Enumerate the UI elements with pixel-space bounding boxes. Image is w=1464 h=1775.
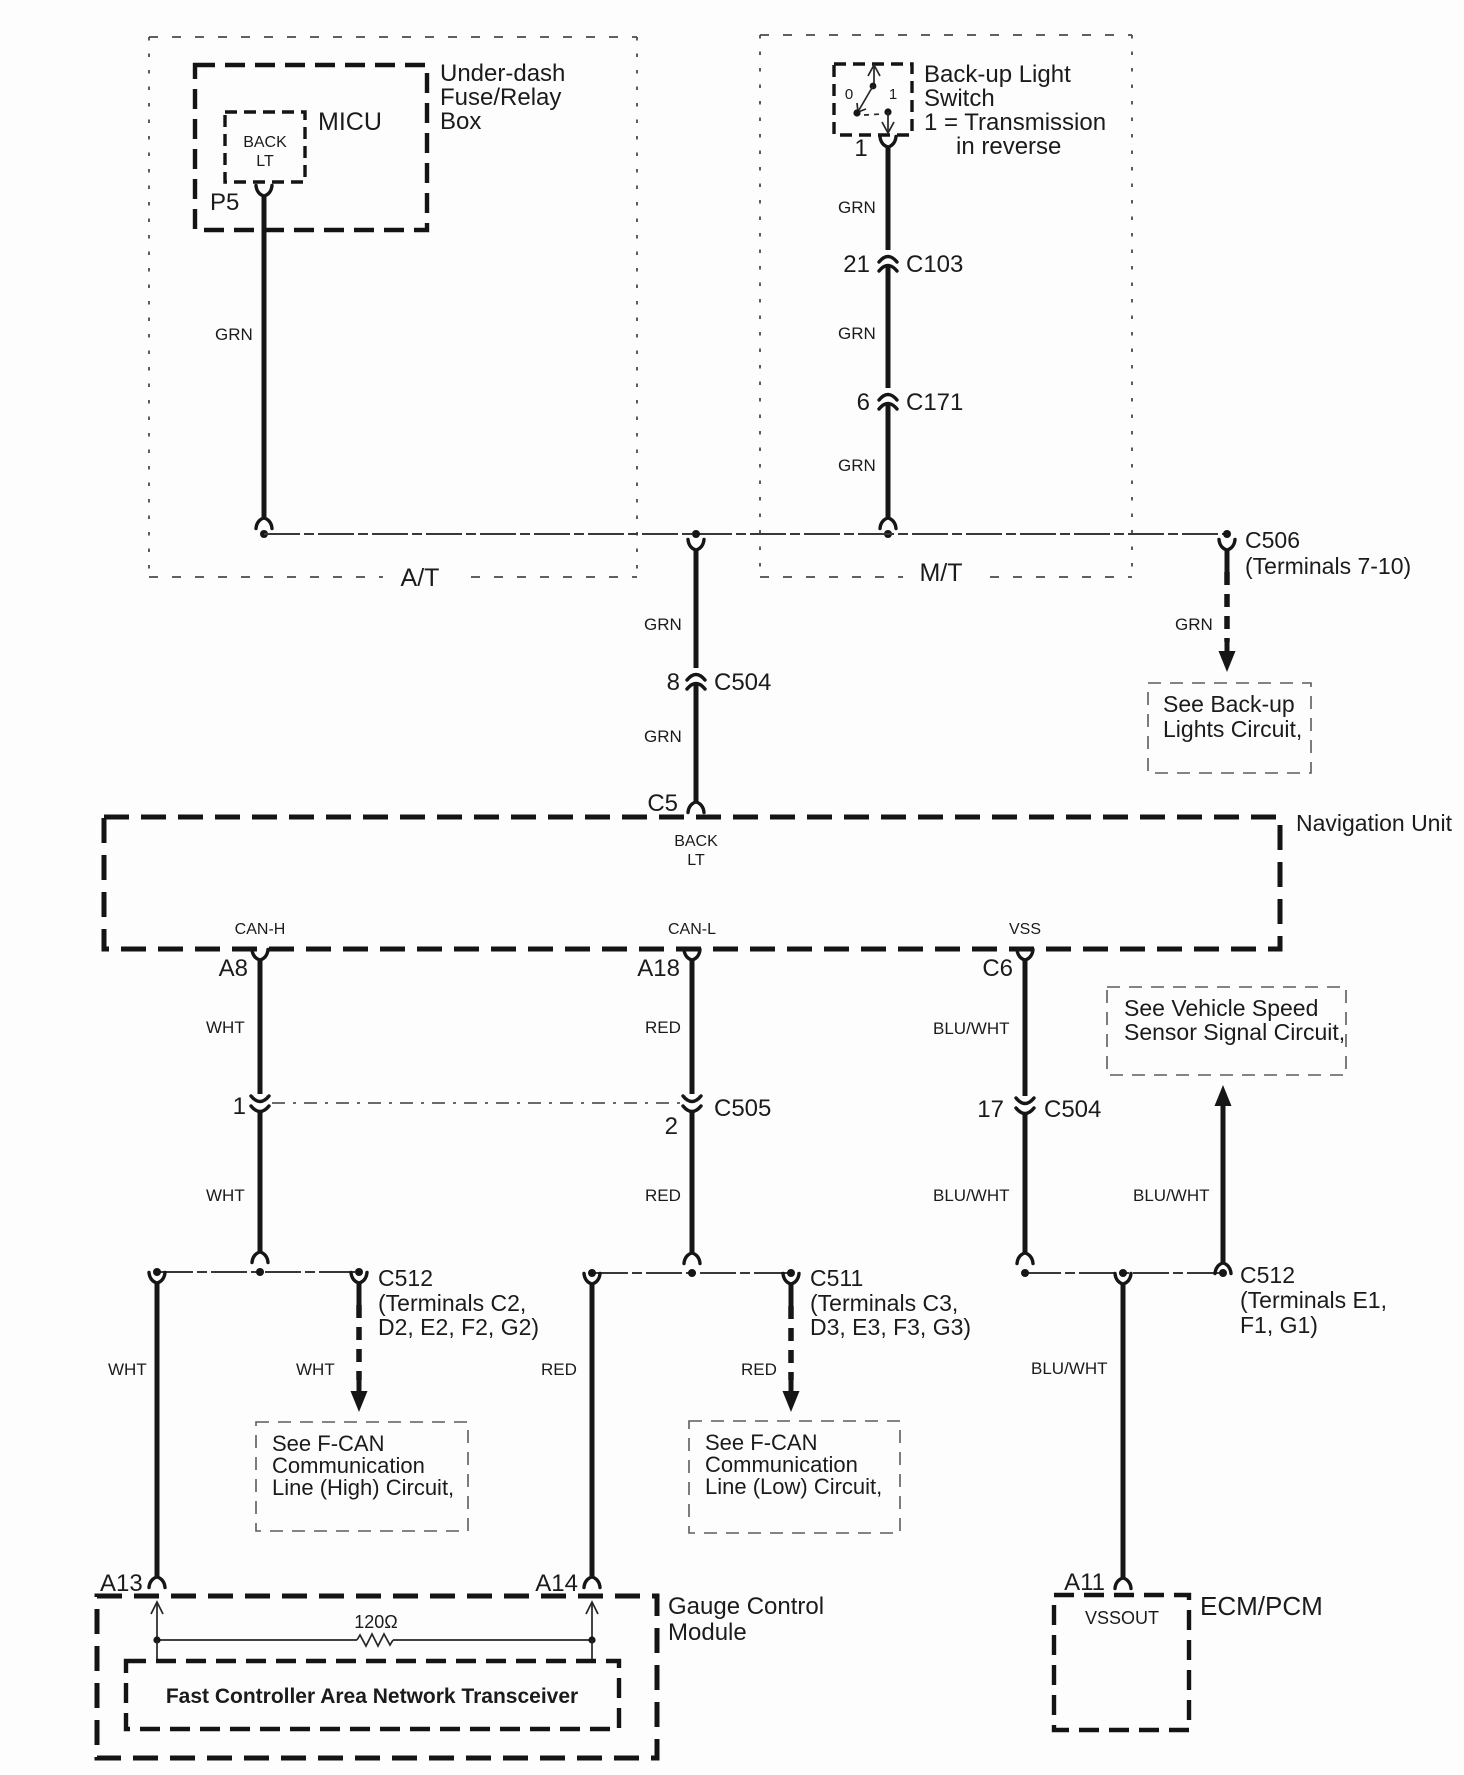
wire GRN to navigation C5 bbox=[694, 683, 699, 802]
label BLU/WHT bbox=[1031, 1359, 1108, 1378]
label 8 bbox=[667, 669, 680, 696]
node junction CAN-L center bbox=[688, 1269, 696, 1277]
label VSSOUT bbox=[1085, 1608, 1159, 1628]
label C512 (Terminals C2, D2, E2, F2, G2) bbox=[378, 1265, 539, 1340]
pin A13 bbox=[100, 1570, 143, 1597]
connector at VSS junction bbox=[1017, 1253, 1033, 1264]
switch contact 1 node bbox=[884, 108, 891, 115]
wire switch GRN segment 3 bbox=[886, 403, 891, 518]
svg-text:BACK: BACK bbox=[674, 833, 718, 850]
relay BACK LT (MICU internal) bbox=[225, 112, 305, 182]
svg-text:A13: A13 bbox=[100, 1570, 143, 1597]
connector at gauge pin A13 bbox=[149, 1577, 165, 1588]
connector C504 pin 17 (in-line) bbox=[1016, 1098, 1034, 1114]
svg-text:C505: C505 bbox=[714, 1095, 771, 1122]
svg-text:Line (High) Circuit,: Line (High) Circuit, bbox=[272, 1475, 454, 1500]
node junction M/T wire to bus bbox=[884, 530, 892, 538]
node junction VSS right bbox=[1219, 1269, 1227, 1277]
arrow into gauge at A14 bbox=[586, 1602, 598, 1640]
node junction CAN-L left bbox=[588, 1269, 596, 1277]
connector at A/T wire bottom bbox=[256, 518, 272, 529]
label C511 (Terminals C3, D3, E3, F3, G3) bbox=[810, 1265, 971, 1340]
svg-text:GRN: GRN bbox=[1175, 615, 1213, 634]
svg-text:Module: Module bbox=[668, 1619, 747, 1646]
node resistor left bbox=[153, 1636, 160, 1643]
reference box See F-CAN Communication Line (Low) Circuit bbox=[689, 1421, 900, 1533]
svg-text:C512: C512 bbox=[378, 1265, 433, 1291]
svg-text:C511: C511 bbox=[810, 1265, 863, 1291]
navigation unit box bbox=[104, 817, 1280, 949]
reference box See Vehicle Speed Sensor Signal Circuit bbox=[1107, 987, 1346, 1075]
label See F-CAN Communication Line (High) Circuit bbox=[272, 1431, 454, 1500]
svg-text:21: 21 bbox=[843, 251, 870, 278]
label CAN-H bbox=[235, 921, 286, 938]
connector C511 branch bbox=[783, 1274, 799, 1285]
svg-text:GRN: GRN bbox=[215, 325, 253, 344]
label WHT bbox=[206, 1018, 245, 1037]
connector C505 pin 1 (in-line) bbox=[251, 1096, 269, 1112]
svg-text:C171: C171 bbox=[906, 389, 963, 416]
svg-text:in reverse: in reverse bbox=[956, 133, 1061, 160]
label 2 bbox=[665, 1113, 678, 1140]
label BLU/WHT bbox=[933, 1186, 1010, 1205]
label RED bbox=[645, 1018, 681, 1037]
connector at A11 branch top bbox=[1115, 1274, 1131, 1285]
svg-text:A18: A18 bbox=[637, 955, 680, 982]
wire VSS BLU/WHT segment 1 bbox=[1023, 959, 1028, 1096]
label C171 bbox=[906, 389, 963, 416]
svg-text:CAN-L: CAN-L bbox=[668, 921, 716, 938]
wire switch GRN segment 1 bbox=[886, 146, 891, 250]
label GRN bbox=[838, 198, 876, 217]
svg-text:WHT: WHT bbox=[108, 1360, 147, 1379]
wire C506 GRN dashed arrow down bbox=[1219, 549, 1236, 672]
connector C505 pin 2 (in-line) bbox=[683, 1096, 701, 1112]
label C504 bbox=[714, 669, 771, 696]
svg-text:120Ω: 120Ω bbox=[354, 1612, 398, 1632]
svg-text:C504: C504 bbox=[1044, 1096, 1101, 1123]
svg-text:VSSOUT: VSSOUT bbox=[1085, 1608, 1159, 1628]
gauge control module box bbox=[97, 1596, 657, 1758]
svg-text:ECM/PCM: ECM/PCM bbox=[1200, 1591, 1323, 1621]
wire C505 harness link bbox=[272, 1102, 680, 1104]
wire CAN-H WHT segment 2 bbox=[258, 1112, 263, 1252]
connector at bus drop bbox=[688, 540, 704, 551]
svg-text:C5: C5 bbox=[647, 790, 678, 817]
label BACK LT (navigation input) bbox=[674, 833, 718, 869]
svg-text:BLU/WHT: BLU/WHT bbox=[933, 1186, 1010, 1205]
connector C506 bbox=[1219, 540, 1235, 551]
switch dashed closed-position link bbox=[864, 114, 882, 115]
arrow into gauge at A13 bbox=[151, 1602, 163, 1640]
connector at navigation pin C5 bbox=[688, 802, 704, 813]
connector at ECM pin A11 bbox=[1115, 1578, 1131, 1589]
back-up light switch box bbox=[834, 64, 912, 135]
label 120 ohm bbox=[354, 1612, 398, 1632]
wire A13 into transceiver bbox=[156, 1640, 158, 1661]
reference box See F-CAN Communication Line (High) Circuit bbox=[256, 1422, 468, 1531]
wire C512 WHT dashed arrow down bbox=[351, 1283, 368, 1412]
label VSS bbox=[1009, 921, 1041, 938]
switch contact 0 node bbox=[853, 109, 860, 116]
label GRN bbox=[644, 615, 682, 634]
svg-text:6: 6 bbox=[857, 389, 870, 416]
node junction VSS left bbox=[1021, 1269, 1029, 1277]
connector at CAN-L junction bbox=[684, 1253, 700, 1264]
label BLU/WHT bbox=[1133, 1186, 1210, 1205]
connector C512 branch bbox=[351, 1273, 367, 1284]
svg-text:RED: RED bbox=[541, 1360, 577, 1379]
pin C5 bbox=[647, 790, 678, 817]
connector at pin P5 bbox=[256, 186, 272, 197]
svg-text:C504: C504 bbox=[714, 669, 771, 696]
svg-text:17: 17 bbox=[977, 1096, 1004, 1123]
svg-text:GRN: GRN bbox=[644, 727, 682, 746]
node resistor right bbox=[588, 1636, 595, 1643]
label See Back-up Lights Circuit bbox=[1163, 691, 1302, 742]
switch arrow up (common) bbox=[868, 65, 880, 84]
wire GRN to C504 bbox=[694, 549, 699, 668]
label CAN-L bbox=[668, 921, 716, 938]
svg-text:1: 1 bbox=[233, 1093, 246, 1120]
label C505 bbox=[714, 1095, 771, 1122]
svg-text:WHT: WHT bbox=[206, 1186, 245, 1205]
wire A13 WHT bbox=[155, 1283, 160, 1577]
svg-text:A14: A14 bbox=[535, 1570, 578, 1597]
pin A14 bbox=[535, 1570, 578, 1597]
wire VSS BLU/WHT segment 2 bbox=[1023, 1114, 1028, 1253]
svg-text:See Vehicle Speed: See Vehicle Speed bbox=[1124, 995, 1318, 1021]
svg-text:MICU: MICU bbox=[318, 108, 382, 136]
wire CAN-L RED segment 1 bbox=[690, 959, 695, 1094]
pin A18 bbox=[637, 955, 680, 982]
connector C504 pin 8 (in-line) bbox=[687, 675, 705, 690]
svg-text:M/T: M/T bbox=[919, 559, 962, 587]
connector at switch pin 1 bbox=[880, 137, 896, 148]
svg-text:CAN-H: CAN-H bbox=[235, 921, 286, 938]
connector at gauge pin A14 bbox=[584, 1577, 600, 1588]
svg-text:Navigation Unit: Navigation Unit bbox=[1296, 810, 1453, 836]
svg-text:GRN: GRN bbox=[838, 198, 876, 217]
node junction CAN-H right bbox=[355, 1268, 363, 1276]
label ECM/PCM bbox=[1200, 1591, 1323, 1621]
label Under-dash Fuse/Relay Box bbox=[440, 60, 565, 135]
svg-text:(Terminals E1,: (Terminals E1, bbox=[1240, 1287, 1387, 1313]
label 0 bbox=[845, 86, 853, 103]
svg-text:GRN: GRN bbox=[644, 615, 682, 634]
switch pivot node bbox=[870, 83, 877, 90]
node junction A/T wire to bus bbox=[260, 530, 268, 538]
pin A11 bbox=[1064, 1569, 1105, 1596]
label Gauge Control Module bbox=[668, 1593, 824, 1646]
svg-text:BACK: BACK bbox=[243, 134, 287, 151]
svg-text:C103: C103 bbox=[906, 251, 963, 278]
pin P5 bbox=[210, 189, 239, 216]
svg-text:D3, E3, F3, G3): D3, E3, F3, G3) bbox=[810, 1314, 971, 1340]
label WHT bbox=[296, 1360, 335, 1379]
label C512 (Terminals E1, F1, G1) bbox=[1240, 1262, 1387, 1338]
label RED bbox=[741, 1360, 777, 1379]
svg-text:Fuse/Relay: Fuse/Relay bbox=[440, 84, 561, 111]
connector at navigation pin A8 bbox=[252, 950, 268, 961]
label GRN bbox=[1175, 615, 1213, 634]
svg-text:C6: C6 bbox=[982, 955, 1013, 982]
connector C103 pin 21 (in-line) bbox=[879, 257, 897, 272]
pin A8 bbox=[219, 955, 248, 982]
switch arrow down to pin 1 bbox=[882, 112, 894, 133]
label 17 bbox=[977, 1096, 1004, 1123]
svg-text:Switch: Switch bbox=[924, 85, 995, 112]
svg-text:LT: LT bbox=[256, 153, 274, 170]
connector at vehicle-speed arrow base bbox=[1215, 1263, 1231, 1274]
wire switch GRN segment 2 bbox=[886, 265, 891, 388]
label A/T bbox=[383, 563, 457, 593]
svg-text:A8: A8 bbox=[219, 955, 248, 982]
svg-text:Fast Controller Area Network T: Fast Controller Area Network Transceiver bbox=[166, 1685, 578, 1708]
svg-text:See Back-up: See Back-up bbox=[1163, 691, 1295, 717]
label See Vehicle Speed Sensor Signal Circuit bbox=[1124, 995, 1345, 1045]
label GRN bbox=[644, 727, 682, 746]
under-dash fuse/relay box bbox=[195, 65, 427, 230]
svg-text:GRN: GRN bbox=[838, 456, 876, 475]
connector at CAN-H junction bbox=[252, 1252, 268, 1263]
svg-text:Sensor Signal Circuit,: Sensor Signal Circuit, bbox=[1124, 1019, 1345, 1045]
label MICU bbox=[318, 108, 382, 136]
label 6 bbox=[857, 389, 870, 416]
resistor 120 ohm bbox=[157, 1634, 592, 1646]
label C103 bbox=[906, 251, 963, 278]
svg-text:1 = Transmission: 1 = Transmission bbox=[924, 109, 1106, 136]
wire junction row VSS bbox=[1025, 1272, 1223, 1274]
label C506 (Terminals 7-10) bbox=[1245, 527, 1411, 579]
svg-text:0: 0 bbox=[845, 86, 853, 103]
svg-text:1: 1 bbox=[854, 135, 867, 162]
svg-text:C512: C512 bbox=[1240, 1262, 1295, 1288]
svg-text:A/T: A/T bbox=[401, 564, 440, 592]
wire horizontal bus GRN bbox=[264, 533, 1227, 535]
wire A14 into transceiver bbox=[591, 1640, 593, 1661]
wire junction row CAN-H bbox=[157, 1271, 359, 1273]
node junction CAN-L right bbox=[787, 1269, 795, 1277]
switch blade with arrow bbox=[857, 86, 873, 112]
wire A14 RED bbox=[590, 1284, 595, 1577]
region box M/T (manual transmission option) bbox=[760, 35, 1132, 577]
label C504 bbox=[1044, 1096, 1101, 1123]
svg-text:Under-dash: Under-dash bbox=[440, 60, 565, 87]
label GRN bbox=[838, 324, 876, 343]
wire CAN-H WHT segment 1 bbox=[258, 959, 263, 1094]
svg-text:(Terminals C3,: (Terminals C3, bbox=[810, 1290, 958, 1316]
svg-text:Gauge Control: Gauge Control bbox=[668, 1593, 824, 1620]
svg-text:Back-up Light: Back-up Light bbox=[924, 61, 1071, 88]
svg-text:1: 1 bbox=[889, 86, 897, 103]
node junction bus to C506 branch bbox=[1223, 530, 1231, 538]
wire A11 BLU/WHT bbox=[1121, 1284, 1126, 1578]
svg-text:(Terminals 7-10): (Terminals 7-10) bbox=[1245, 553, 1411, 579]
label GRN bbox=[215, 325, 253, 344]
label M/T bbox=[903, 558, 979, 588]
connector at navigation pin A18 bbox=[684, 950, 700, 961]
svg-text:Box: Box bbox=[440, 108, 481, 135]
label Fast Controller Area Network Transceiver bbox=[166, 1685, 578, 1708]
svg-text:P5: P5 bbox=[210, 189, 239, 216]
svg-text:8: 8 bbox=[667, 669, 680, 696]
connector at A13 branch top bbox=[149, 1273, 165, 1284]
svg-text:F1, G1): F1, G1) bbox=[1240, 1312, 1318, 1338]
transceiver box bbox=[126, 1661, 619, 1729]
node junction CAN-H center bbox=[256, 1268, 264, 1276]
svg-text:BLU/WHT: BLU/WHT bbox=[1031, 1359, 1108, 1378]
label Navigation Unit bbox=[1296, 810, 1453, 836]
svg-text:RED: RED bbox=[741, 1360, 777, 1379]
svg-text:A11: A11 bbox=[1064, 1569, 1105, 1596]
region box A/T (automatic transmission option) bbox=[149, 37, 637, 577]
svg-text:Line (Low) Circuit,: Line (Low) Circuit, bbox=[705, 1474, 882, 1499]
svg-text:WHT: WHT bbox=[296, 1360, 335, 1379]
label RED bbox=[645, 1186, 681, 1205]
label Back-up Light Switch bbox=[924, 61, 1106, 160]
svg-text:VSS: VSS bbox=[1009, 921, 1041, 938]
svg-text:C506: C506 bbox=[1245, 527, 1300, 553]
label 1 bbox=[889, 86, 897, 103]
connector at M/T wire bottom bbox=[880, 518, 896, 529]
wire junction row CAN-L bbox=[592, 1272, 791, 1274]
label WHT bbox=[108, 1360, 147, 1379]
svg-text:RED: RED bbox=[645, 1018, 681, 1037]
svg-text:RED: RED bbox=[645, 1186, 681, 1205]
svg-text:GRN: GRN bbox=[838, 324, 876, 343]
svg-text:BLU/WHT: BLU/WHT bbox=[1133, 1186, 1210, 1205]
label See F-CAN Communication Line (Low) Circuit bbox=[705, 1430, 882, 1499]
svg-text:Lights Circuit,: Lights Circuit, bbox=[1163, 716, 1302, 742]
label RED bbox=[541, 1360, 577, 1379]
pin 1 label bbox=[854, 135, 867, 162]
reference box See Back-up Lights Circuit bbox=[1148, 683, 1311, 773]
svg-text:BLU/WHT: BLU/WHT bbox=[933, 1019, 1010, 1038]
connector at navigation pin C6 bbox=[1017, 950, 1033, 961]
svg-text:2: 2 bbox=[665, 1113, 678, 1140]
svg-text:WHT: WHT bbox=[206, 1018, 245, 1037]
svg-text:(Terminals C2,: (Terminals C2, bbox=[378, 1290, 526, 1316]
label GRN bbox=[838, 456, 876, 475]
connector at A14 branch top bbox=[584, 1274, 600, 1285]
ECM/PCM box bbox=[1054, 1595, 1189, 1730]
wire BLU/WHT arrow up to speed signal circuit bbox=[1215, 1085, 1232, 1263]
connector C171 pin 6 (in-line) bbox=[879, 395, 897, 410]
wire CAN-L RED segment 2 bbox=[690, 1112, 695, 1253]
label WHT bbox=[206, 1186, 245, 1205]
svg-text:D2, E2, F2, G2): D2, E2, F2, G2) bbox=[378, 1314, 539, 1340]
svg-text:LT: LT bbox=[687, 852, 705, 869]
node junction CAN-H left bbox=[153, 1268, 161, 1276]
label 1 bbox=[233, 1093, 246, 1120]
node junction VSS center bbox=[1119, 1269, 1127, 1277]
label 21 bbox=[843, 251, 870, 278]
label BACK LT bbox=[243, 134, 287, 170]
label BLU/WHT bbox=[933, 1019, 1010, 1038]
wire P5 GRN (A/T back-up signal) bbox=[262, 196, 267, 518]
node junction bus to navigation feed bbox=[692, 530, 700, 538]
wire C511 RED dashed arrow down bbox=[783, 1284, 800, 1412]
pin C6 bbox=[982, 955, 1013, 982]
